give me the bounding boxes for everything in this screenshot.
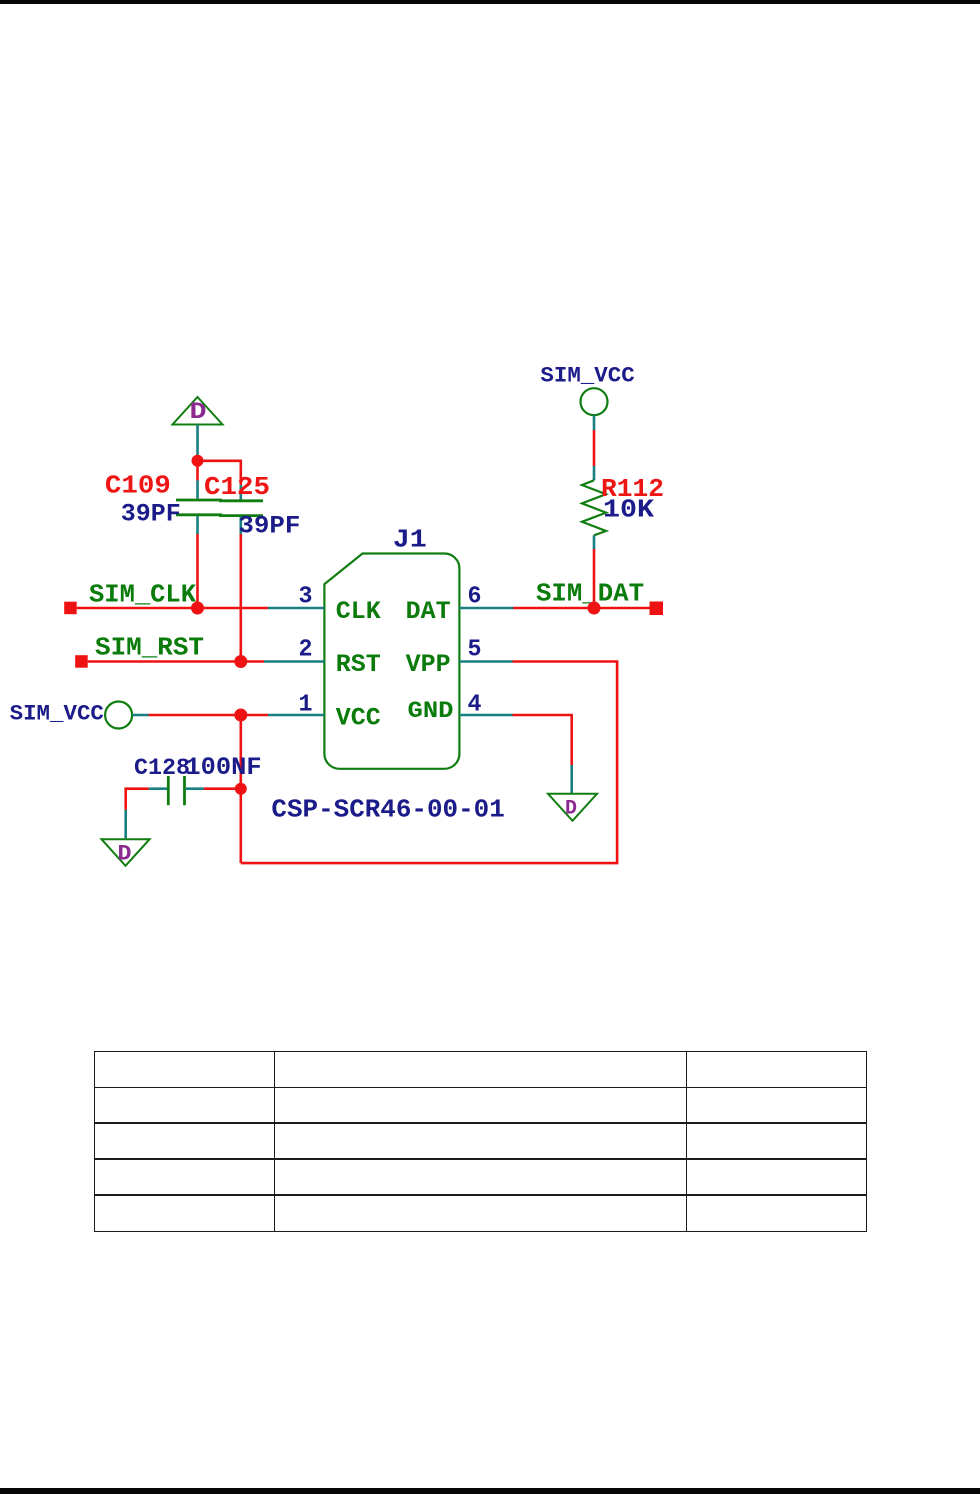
ground D bottom left (apex down) (102, 839, 150, 866)
svg-text:C128: C128 (134, 755, 190, 781)
svg-text:C125: C125 (204, 472, 270, 502)
wire C125 bottom lead down to RST net (240, 517, 243, 662)
svg-text:6: 6 (468, 584, 482, 611)
ground D bottom right (apex down) (548, 794, 597, 821)
junction node SIM_VCC / C128 branch (234, 709, 247, 722)
svg-text:SIM_VCC: SIM_VCC (10, 701, 104, 727)
wire C125 top lead (240, 485, 243, 500)
top rule (0, 0, 980, 4)
wire pin 5 VPP loop to bottom rail (241, 662, 617, 864)
svg-text:39PF: 39PF (121, 500, 181, 529)
svg-text:3: 3 (299, 584, 313, 611)
wire C128 right lead (186, 787, 241, 790)
capacitor C128 (168, 776, 184, 805)
table (94, 1051, 867, 1232)
terminal SIM_RST (75, 655, 88, 668)
junction node SIM_RST / C125 (234, 655, 247, 668)
wire R112 to SIM_DAT net (593, 535, 596, 608)
svg-text:J1: J1 (393, 525, 427, 555)
wire SIM_VCC to pin 1 (132, 714, 324, 717)
power port SIM_VCC top (540, 363, 634, 416)
bottom rule (0, 1488, 980, 1494)
svg-text:SIM_CLK: SIM_CLK (89, 581, 197, 610)
capacitor C125 (219, 501, 263, 516)
svg-text:VCC: VCC (336, 704, 381, 733)
terminal SIM_CLK (64, 602, 77, 615)
power port SIM_VCC left (10, 701, 133, 729)
svg-text:D: D (565, 798, 577, 821)
wire pin 4 GND to ground (459, 715, 571, 794)
wire top ground to junction (196, 425, 199, 461)
terminal SIM_DAT (650, 602, 664, 616)
svg-text:D: D (118, 841, 132, 866)
junction node SIM_DAT / R112 (588, 602, 601, 615)
resistor R112 (582, 480, 606, 535)
wire junction to C125 branch (198, 461, 241, 485)
svg-text:SIM_VCC: SIM_VCC (540, 363, 634, 389)
svg-text:SIM_RST: SIM_RST (95, 634, 204, 663)
connector J1 body (324, 554, 459, 769)
wire VCC net down to bottom rail (240, 715, 243, 863)
junction node SIM_CLK / C109 (191, 602, 204, 615)
wire SIM_VCC port to R112 (593, 415, 596, 480)
svg-text:39PF: 39PF (238, 512, 300, 541)
svg-text:VPP: VPP (406, 650, 451, 679)
wire pin 6 to SIM_DAT terminal (459, 607, 650, 610)
wire SIM_CLK to pin 3 (77, 607, 325, 610)
svg-text:10K: 10K (603, 495, 654, 525)
svg-text:DAT: DAT (406, 597, 451, 626)
wire C109 top lead (196, 461, 199, 481)
svg-text:CSP-SCR46-00-01: CSP-SCR46-00-01 (271, 795, 504, 825)
svg-text:C109: C109 (105, 471, 171, 501)
svg-text:2: 2 (299, 637, 313, 664)
junction node above C109 (192, 455, 204, 467)
svg-text:GND: GND (408, 698, 454, 724)
svg-text:D: D (190, 399, 207, 425)
capacitor C109 (176, 500, 222, 515)
svg-text:CLK: CLK (336, 597, 381, 626)
wire C128 left lead (126, 787, 167, 838)
svg-text:5: 5 (468, 637, 482, 664)
wire C109 bottom lead (196, 516, 199, 608)
junction node C128 right (235, 783, 247, 795)
wire SIM_RST to pin 2 (88, 660, 325, 663)
svg-text:100NF: 100NF (185, 753, 261, 782)
ground D top (apex up) (173, 397, 223, 425)
svg-text:RST: RST (336, 650, 381, 679)
